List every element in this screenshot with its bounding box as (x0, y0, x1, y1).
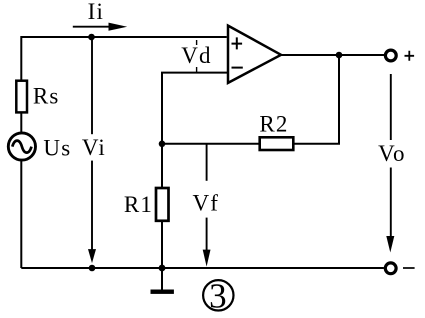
wire Us to bottom (20, 161, 22, 269)
wire inverting input (162, 73, 228, 144)
figure number 3 (circled) (203, 277, 233, 316)
resistor Rs (16, 81, 27, 113)
svg-text:Ii: Ii (88, 0, 104, 24)
voltage arrow Vo (386, 74, 394, 253)
node A (top junction of Ii / Vi) (88, 34, 95, 41)
svg-text:R2: R2 (259, 112, 288, 137)
wire node to R1 (161, 144, 163, 188)
wire Rs to Us (20, 112, 22, 132)
svg-text:Vi: Vi (82, 135, 106, 160)
resistor R1 (156, 188, 169, 221)
node bottom under Vi (89, 265, 96, 272)
label Vd with ticks (181, 40, 212, 72)
svg-text:Vf: Vf (193, 191, 220, 216)
wire left branch upper (20, 36, 22, 81)
resistor R2 (260, 137, 294, 150)
label − (terminal polarity) (403, 267, 415, 269)
node R1 bottom (159, 265, 166, 272)
node feedback (junction R1/R2/inverting) (159, 141, 166, 148)
voltage arrow Vi (88, 37, 96, 263)
svg-text:Vo: Vo (378, 141, 406, 166)
wire R1 to bottom (161, 221, 163, 268)
wire bottom (21, 267, 384, 269)
node output (336, 52, 343, 59)
svg-text:3: 3 (209, 277, 228, 316)
label + (terminal polarity) (405, 51, 415, 61)
svg-text:R1: R1 (124, 192, 153, 217)
svg-text:Rs: Rs (33, 84, 60, 109)
svg-text:Us: Us (43, 136, 71, 161)
wire feedback horizontal (node to R2) (162, 143, 260, 145)
source Us (8, 133, 35, 160)
wire R2 to output node (293, 55, 339, 144)
op-amp U1 (228, 26, 281, 83)
terminal + (output positive) (385, 50, 396, 61)
ground (151, 268, 174, 294)
terminal − (output negative) (385, 263, 396, 274)
current arrow Ii (73, 23, 127, 31)
svg-text:Vd: Vd (181, 43, 212, 68)
wire top (source to op-amp + input) (21, 36, 227, 38)
voltage arrow Vf (203, 144, 211, 267)
wire output (op-amp to + terminal) (281, 54, 384, 56)
